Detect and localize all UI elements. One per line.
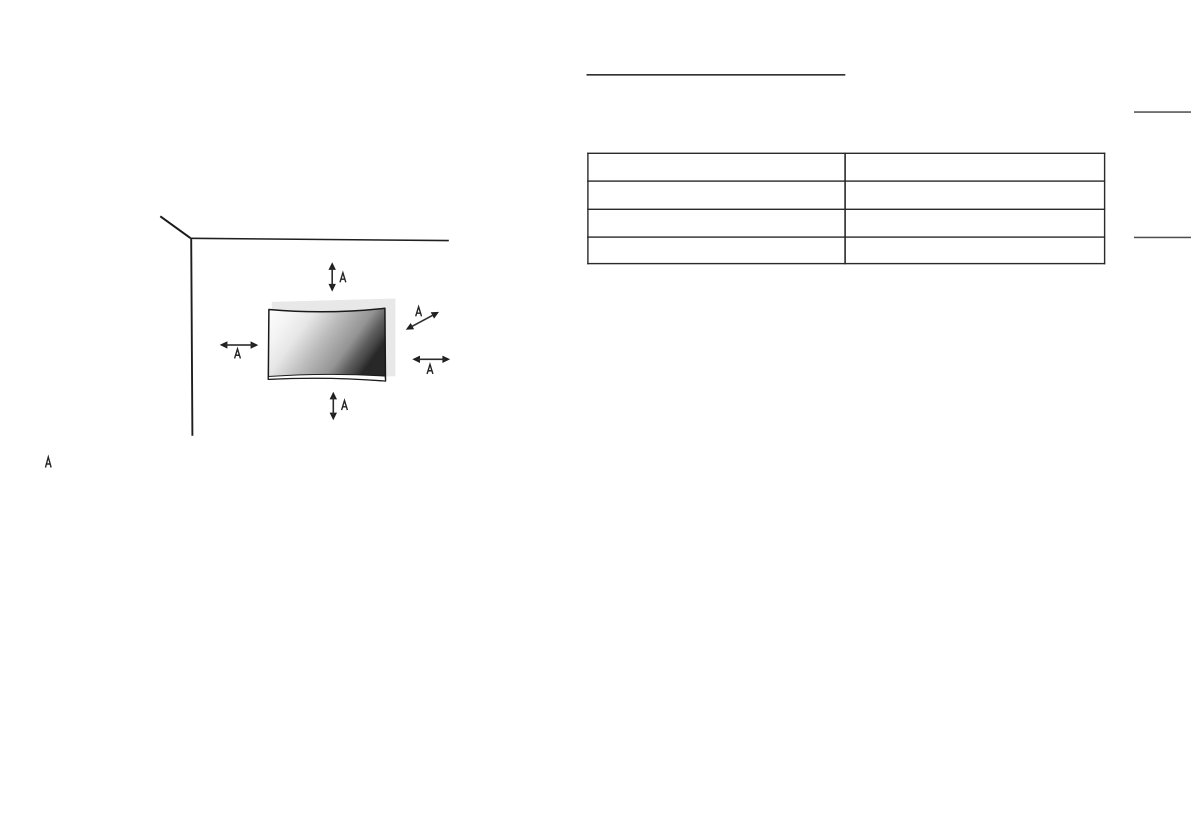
arrow bottom (vertical double-headed): [330, 392, 337, 421]
label A right: [427, 364, 433, 374]
arrow left (horizontal double-headed): [220, 341, 259, 349]
label A diagonal: [416, 307, 422, 317]
table column divider: [844, 153, 846, 265]
label A bottom: [342, 401, 348, 411]
wall corner diagonal line: [160, 216, 190, 238]
wall vertical line: [191, 238, 192, 436]
arrow diagonal (double-headed): [406, 312, 439, 330]
arrow top (vertical double-headed): [329, 262, 336, 291]
wall mount plate: [272, 299, 396, 380]
table outer border: [587, 153, 1105, 265]
monitor bottom bezel sliver: [268, 374, 385, 381]
label A left: [235, 349, 241, 359]
right edge tab top line: [1134, 111, 1191, 113]
right edge tab bottom line: [1134, 237, 1191, 239]
arrow right (horizontal double-headed): [412, 356, 450, 363]
heading underline: [587, 74, 846, 76]
monitor body with curved screen: [268, 308, 385, 381]
table row line 3: [587, 236, 1105, 237]
label A footnote bottom-left: [45, 457, 51, 468]
wall ceiling line: [190, 238, 449, 240]
label A top: [340, 273, 346, 283]
table row line 1: [587, 180, 1105, 181]
table row line 2: [587, 209, 1105, 210]
